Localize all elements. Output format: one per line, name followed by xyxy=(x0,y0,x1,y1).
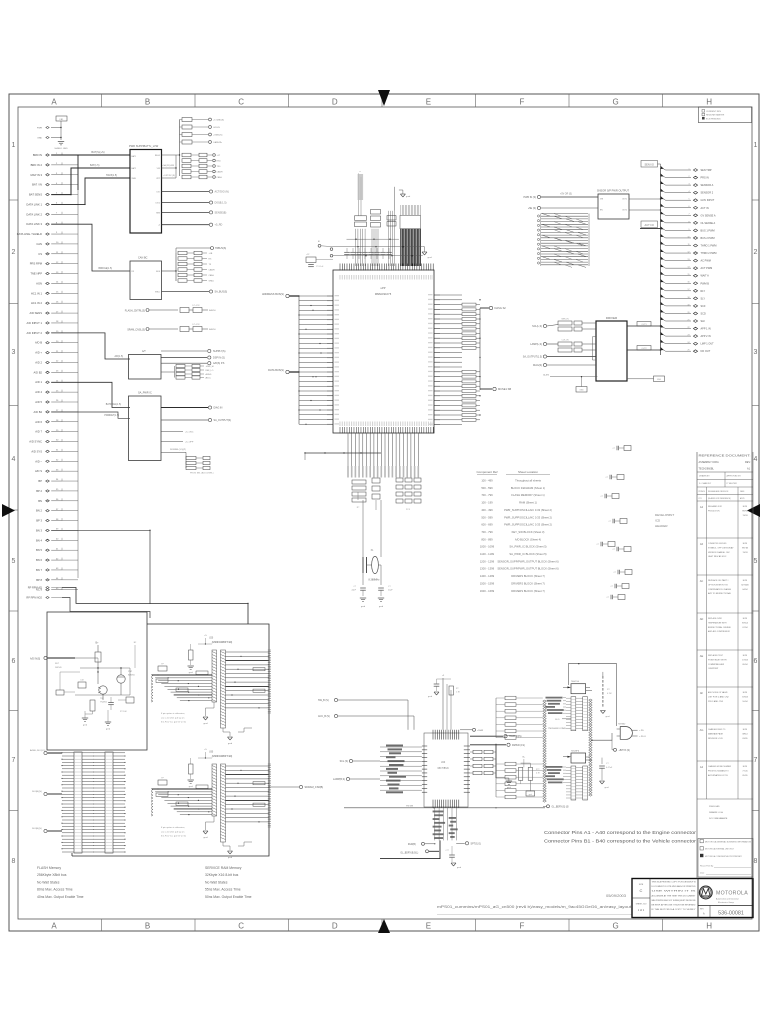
svg-text:1100 - 1199: 1100 - 1199 xyxy=(480,552,494,556)
drawn cad note xyxy=(709,805,728,820)
svg-text:1000 - 1099: 1000 - 1099 xyxy=(480,545,495,549)
svg-text:G: G xyxy=(612,98,618,107)
svg-text:TNE NPP: TNE NPP xyxy=(30,272,42,276)
svg-text:A/D 2: A/D 2 xyxy=(35,360,42,364)
capacitor C31 xyxy=(599,758,613,789)
svg-text:87654: 87654 xyxy=(742,623,749,625)
svg-text:BAT / IN: BAT / IN xyxy=(32,183,42,187)
svg-text:4.7M: 4.7M xyxy=(607,693,612,695)
svg-text:40ns Max. Output Enable Time: 40ns Max. Output Enable Time xyxy=(37,895,84,899)
revision row AG 7 xyxy=(697,728,753,761)
svg-text:A/D(1.5): A/D(1.5) xyxy=(114,355,123,358)
svg-text:SENSOR A: SENSOR A xyxy=(701,184,714,187)
svg-text:SEN I/O: SEN I/O xyxy=(644,163,654,167)
svg-text:ALANI: ALANI xyxy=(543,374,549,377)
svg-text:AG: AG xyxy=(700,728,704,732)
svg-text:this R to Vcc (pri 5V or G): this R to Vcc (pri 5V or G) xyxy=(161,721,186,724)
resistor network RN2 right of U1 xyxy=(162,153,223,179)
label scribbles 74HC1G xyxy=(546,697,567,714)
connector strips 74HC1G xyxy=(566,697,588,731)
terminal DIO B xyxy=(32,791,62,796)
svg-text:SRAM_CNSL(S): SRAM_CNSL(S) xyxy=(127,329,145,332)
svg-text:COMPENSATION. CHANGE: COMPENSATION. CHANGE xyxy=(708,588,732,591)
svg-text:DATA LINE / SHIELD: DATA LINE / SHIELD xyxy=(17,232,42,236)
terminal DIAG driver xyxy=(533,363,596,367)
svg-text:SCL (S): SCL (S) xyxy=(340,760,349,763)
terminal SA OUTPUT driver xyxy=(523,355,596,359)
svg-text:AVR TO BIDIRECTIONAL: AVR TO BIDIRECTIONAL xyxy=(708,592,732,595)
svg-text:9: 9 xyxy=(689,229,690,231)
svg-text:MOTOROLA GENERAL BUSINESS INFO: MOTOROLA GENERAL BUSINESS INFORMATION xyxy=(705,841,752,844)
svg-text:A/D B: A/D B xyxy=(35,341,42,345)
svg-text:ECN: ECN xyxy=(743,543,748,545)
svg-text:A/D 4: A/D 4 xyxy=(35,390,42,394)
IC U2 CAN transceiver xyxy=(130,257,162,300)
terminal SCL U8 xyxy=(340,759,380,763)
svg-text:3: 3 xyxy=(754,349,758,356)
connector pin hatch column right xyxy=(589,699,593,796)
svg-text:THIS IS A PRINTED COPY. FOR DE: THIS IS A PRINTED COPY. FOR DESIGN F B xyxy=(652,881,697,884)
wire data bus right fan xyxy=(434,295,481,425)
connector pin hatch column left xyxy=(543,700,547,802)
svg-text:BLOCK DIAGRAM (Sheet 1): BLOCK DIAGRAM (Sheet 1) xyxy=(511,486,545,490)
wire bottom pin hatch xyxy=(340,427,433,434)
svg-text:16: 16 xyxy=(688,282,690,284)
connector strips 74S/4Pb xyxy=(566,766,588,800)
svg-text:CURRENT REV: CURRENT REV xyxy=(706,111,722,113)
svg-text:11: 11 xyxy=(688,244,690,246)
title block disclaimer text xyxy=(652,881,698,912)
svg-text:DRIVE: DRIVE xyxy=(55,667,62,669)
IC U8 serial interface package xyxy=(422,730,470,808)
terminal RxD xyxy=(408,842,436,846)
svg-text:FLASH_CNTRL(S): FLASH_CNTRL(S) xyxy=(125,310,145,313)
svg-text:6: 6 xyxy=(754,658,758,665)
svg-text:BP: BP xyxy=(38,479,42,483)
svg-text:No Wait States: No Wait States xyxy=(205,880,228,884)
svg-text:ACT I/O: ACT I/O xyxy=(645,223,654,227)
svg-text:SCL(L,S): SCL(L,S) xyxy=(532,325,542,328)
svg-text:APP 1 IN: APP 1 IN xyxy=(701,328,711,331)
terminal ADBL DIO xyxy=(30,749,62,755)
svg-text:OUT1: OUT1 xyxy=(622,199,627,201)
svg-text:10: 10 xyxy=(688,236,690,238)
svg-text:Component Ref: Component Ref xyxy=(476,470,497,474)
svg-text:BN 6: BN 6 xyxy=(36,558,42,562)
connector J1 engine harness pins xyxy=(17,153,78,600)
svg-text:SA_PWR_IC BLOCK (Sheet 5): SA_PWR_IC BLOCK (Sheet 5) xyxy=(509,545,546,549)
svg-text:2: 2 xyxy=(689,176,690,178)
svg-text:32Kbyte X16 8-bit bus: 32Kbyte X16 8-bit bus xyxy=(205,873,239,877)
svg-text:GL_BDRY(S) (S/: GL_BDRY(S) (S/ xyxy=(552,806,570,808)
resistor R42 divider xyxy=(496,763,541,796)
svg-text:BP 3: BP 3 xyxy=(36,519,42,523)
svg-text:BAT(S)(+S): BAT(S)(+S) xyxy=(91,150,104,154)
border row numbers xyxy=(12,142,758,865)
bottom grounds U20 xyxy=(203,702,252,745)
svg-text:AD: AD xyxy=(700,617,704,621)
svg-text:E: E xyxy=(426,98,431,107)
svg-text:PNP: PNP xyxy=(128,671,133,673)
decoupling U30 xyxy=(158,749,212,788)
reference document header xyxy=(699,455,752,500)
capacitor C6 xyxy=(378,586,394,608)
svg-text:GD/LN: GD/LN xyxy=(213,127,220,129)
svg-text:LIST FOR D AND CN2: LIST FOR D AND CN2 xyxy=(708,695,730,698)
svg-text:V33: V33 xyxy=(157,168,160,170)
svg-text:CANH: CANH xyxy=(209,269,215,272)
gate U9 xyxy=(617,724,647,740)
svg-text:ICD: ICD xyxy=(655,519,661,523)
svg-text:A/DBL,DIO(1.5): A/DBL,DIO(1.5) xyxy=(30,749,46,752)
svg-text:E: E xyxy=(426,922,431,931)
svg-text:Automotive and Industrial: Automotive and Industrial xyxy=(716,898,739,901)
svg-text:BN 7: BN 7 xyxy=(36,568,42,572)
MCU U5 xyxy=(333,270,434,433)
svg-text:BN 5: BN 5 xyxy=(36,548,42,552)
svg-text:A/D B4: A/D B4 xyxy=(33,410,42,414)
svg-text:OUT2: OUT2 xyxy=(622,210,627,212)
revision row AE 5 xyxy=(697,654,753,687)
svg-text:C?: C? xyxy=(614,572,616,574)
svg-text:04/04: 04/04 xyxy=(742,589,748,591)
svg-text:D? 4.7K: D? 4.7K xyxy=(192,324,200,326)
svg-text:AGND: AGND xyxy=(206,373,212,376)
svg-text:ECN: ECN xyxy=(743,766,748,768)
svg-text:6: 6 xyxy=(12,658,16,665)
svg-text:05/09/2003: 05/09/2003 xyxy=(606,893,627,898)
title block outline xyxy=(632,879,753,918)
svg-text:A/D(S) P.S: A/D(S) P.S xyxy=(213,362,225,365)
svg-text:1: 1 xyxy=(12,142,16,149)
svg-text:+IGN1(S): +IGN1(S) xyxy=(213,135,223,137)
svg-text:GL_BDRY(B,S/L): GL_BDRY(B,S/L) xyxy=(400,853,418,855)
svg-text:+5SW: +5SW xyxy=(477,730,484,732)
svg-text:HEADER: HEADER xyxy=(655,524,668,528)
svg-text:SLY: SLY xyxy=(701,297,706,300)
svg-text:ECN: ECN xyxy=(743,580,748,582)
svg-text:7: 7 xyxy=(12,757,16,764)
logic buffer 74HC1G xyxy=(563,681,592,694)
svg-text:D: D xyxy=(332,922,338,931)
svg-text:8: 8 xyxy=(689,221,690,223)
svg-text:1200 - 1299: 1200 - 1299 xyxy=(480,559,495,563)
svg-text:BAW56: BAW56 xyxy=(128,674,136,677)
svg-text:1300 - 1399: 1300 - 1399 xyxy=(480,567,495,571)
svg-text:DIO(B,1.5): DIO(B,1.5) xyxy=(215,202,227,205)
svg-text:BAT2: BAT2 xyxy=(132,167,137,170)
svg-text:ECN: ECN xyxy=(743,506,748,508)
svg-text:PRINCE: PRINCE xyxy=(699,491,706,493)
svg-text:SA_PWR_IC BLOCK (Sheet 5): SA_PWR_IC BLOCK (Sheet 5) xyxy=(509,552,546,556)
svg-text:RxD(B): RxD(B) xyxy=(408,843,416,846)
svg-text:(BLANKS FOR REFERENCE): (BLANKS FOR REFERENCE) xyxy=(708,497,731,500)
svg-text:GND: GND xyxy=(579,390,584,392)
wire TN SW run xyxy=(344,806,545,809)
svg-text:Throughout all sheets: Throughout all sheets xyxy=(515,479,542,483)
wire bus taps to lower blocks xyxy=(51,224,249,624)
svg-text:5: 5 xyxy=(12,558,16,565)
terminal MCSE xyxy=(480,387,511,391)
svg-text:use a 10 ohm pull up on: use a 10 ohm pull up on xyxy=(161,831,185,833)
svg-text:THRO 1 PWM: THRO 1 PWM xyxy=(701,245,717,248)
svg-text:A4: A4 xyxy=(700,765,704,769)
svg-text:grnd: grnd xyxy=(606,716,610,718)
RC network RN3 xyxy=(162,247,228,294)
svg-text:REPLACE OIL PART #: REPLACE OIL PART # xyxy=(708,579,730,582)
svg-text:SEN: SEN xyxy=(156,212,161,214)
svg-text:BP 2: BP 2 xyxy=(36,489,42,493)
svg-text:HI/BUS(S): HI/BUS(S) xyxy=(215,247,226,250)
svg-text:RELEASE AND REVISION: RELEASE AND REVISION xyxy=(708,490,729,493)
svg-text:10/04: 10/04 xyxy=(742,701,748,703)
svg-text:BN 4: BN 4 xyxy=(36,538,42,542)
svg-text:KEY_SW BLOCK (Sheet 3): KEY_SW BLOCK (Sheet 3) xyxy=(512,530,545,534)
svg-text:500 - 599: 500 - 599 xyxy=(481,515,493,519)
svg-text:+5 CMD(S): +5 CMD(S) xyxy=(213,120,224,122)
terminal RMS D xyxy=(470,743,525,747)
svg-text:BE RESP. AFTER USE IT MUST BE: BE RESP. AFTER USE IT MUST BE REVIEWED xyxy=(652,904,697,907)
revision row A6 2 xyxy=(697,542,753,575)
svg-text:CAN5/2b: CAN5/2b xyxy=(213,141,223,144)
svg-text:09/04: 09/04 xyxy=(742,664,748,666)
svg-text:SERVICE RAM Memory: SERVICE RAM Memory xyxy=(205,866,242,870)
Motorola logo xyxy=(698,886,753,905)
svg-text:SCF: SCF xyxy=(701,305,706,308)
svg-text:CLK_IN: CLK_IN xyxy=(561,340,569,342)
svg-text:A/D B2: A/D B2 xyxy=(33,370,42,374)
svg-text:AE: AE xyxy=(700,654,704,658)
svg-text:A/D ~: A/D ~ xyxy=(35,459,42,463)
svg-text:WAIT A: WAIT A xyxy=(701,275,710,278)
svg-text:POINT/INLET WITH: POINT/INLET WITH xyxy=(708,659,727,661)
terminal SW D IN xyxy=(470,735,522,739)
svg-text:DIO: DIO xyxy=(157,192,161,194)
svg-text:DATA LINK 1: DATA LINK 1 xyxy=(26,202,42,206)
note sram memory xyxy=(205,866,252,899)
svg-text:uPP: uPP xyxy=(381,286,386,290)
svg-text:D? 4.7K: D? 4.7K xyxy=(192,305,200,307)
svg-text:PRS RPM: PRS RPM xyxy=(30,262,43,266)
svg-text:+.2S O: +.2S O xyxy=(639,736,646,738)
svg-text:R?: R? xyxy=(456,688,458,690)
svg-text:BRIDGE(1.5): BRIDGE(1.5) xyxy=(98,268,112,270)
svg-text:RMS/D (1S): RMS/D (1S) xyxy=(512,744,525,747)
svg-text:11/03: 11/03 xyxy=(742,552,748,554)
wire gate feed xyxy=(591,733,612,741)
net label ACT I/O xyxy=(640,221,658,228)
svg-text:A/D BLOCK (Sheet 4): A/D BLOCK (Sheet 4) xyxy=(515,537,541,541)
svg-text:PWR_SUPP/OSCILL/HC 0.33 (Sheet: PWR_SUPP/OSCILL/HC 0.33 (Sheet 2) xyxy=(504,508,552,512)
svg-text:+.2S: +.2S xyxy=(639,730,644,732)
wire battery feeds xyxy=(51,150,130,205)
IC U3 A/D interface xyxy=(129,350,162,379)
svg-text:6: 6 xyxy=(689,206,690,208)
svg-text:THRO 2 PWM: THRO 2 PWM xyxy=(701,252,717,255)
release classification checkboxes xyxy=(698,839,753,878)
note flash memory xyxy=(37,866,84,899)
ground top 2 xyxy=(422,247,433,259)
svg-text:600 - 699: 600 - 699 xyxy=(481,523,493,527)
svg-text:P. WELTER: P. WELTER xyxy=(727,483,738,485)
svg-text:PWR SUPP/BATTx_LVW: PWR SUPP/BATTx_LVW xyxy=(129,144,159,148)
terminal GL BDRY S xyxy=(543,805,569,809)
svg-text:SENSE(B): SENSE(B) xyxy=(215,211,227,214)
svg-text:C: C xyxy=(238,98,244,107)
U8 top decoupling xyxy=(428,675,461,730)
svg-text:REPLACED TEST: REPLACED TEST xyxy=(708,654,724,657)
svg-text:14: 14 xyxy=(688,267,690,269)
svg-text:BP 8: BP 8 xyxy=(36,578,42,582)
svg-text:DATA LINK 3: DATA LINK 3 xyxy=(26,222,42,226)
decoupling caps row xyxy=(344,248,392,259)
svg-text:22pF: 22pF xyxy=(351,590,356,592)
svg-text:A/D 7: A/D 7 xyxy=(35,430,42,434)
svg-text:F: F xyxy=(520,98,525,107)
bus hatch U30 xyxy=(268,764,271,827)
svg-text:PIN 2 AND CN3: PIN 2 AND CN3 xyxy=(708,700,724,703)
flash interface box outline xyxy=(47,612,147,750)
U8 bottom label scribbles xyxy=(433,808,458,840)
terminal SPT xyxy=(456,842,481,846)
svg-text:MAP IN 3: MAP IN 3 xyxy=(31,173,43,177)
svg-text:A/D 1: A/D 1 xyxy=(35,380,42,384)
svg-text:ALTERNATES LIST B: ALTERNATES LIST B xyxy=(708,774,728,777)
svg-text:ACT PWM: ACT PWM xyxy=(701,267,713,270)
svg-text:82754B: 82754B xyxy=(741,585,749,587)
svg-text:8.388MHz: 8.388MHz xyxy=(369,579,381,582)
svg-text:DATA LINK 2: DATA LINK 2 xyxy=(26,212,42,216)
memory module U30 package xyxy=(209,752,232,843)
svg-text:FROM GC74566AN3 TO: FROM GC74566AN3 TO xyxy=(708,769,729,772)
revision row A4 8 xyxy=(697,765,753,799)
resistor network RN4 xyxy=(161,364,214,379)
label ICD header xyxy=(655,513,674,528)
svg-text:DRIVER: DRIVER xyxy=(606,316,618,320)
svg-text:CANH: CANH xyxy=(217,171,223,174)
svg-text:DOCUMENT IS UTILIZED AND/OR PR: DOCUMENT IS UTILIZED AND/OR PRINTED xyxy=(652,885,697,888)
svg-text:DIO2: DIO2 xyxy=(156,203,160,205)
svg-text:WB-3: WB-3 xyxy=(742,734,748,736)
svg-text:SER_IN: SER_IN xyxy=(561,319,569,321)
ground shield xyxy=(54,142,68,151)
capacitor C8 with ground xyxy=(446,846,461,869)
svg-text:3: 3 xyxy=(12,349,16,356)
svg-text:LAMP(L,S): LAMP(L,S) xyxy=(530,343,542,346)
svg-text:ACCURATE AT THE TIME THIS DOCU: ACCURATE AT THE TIME THIS DOCUMENT xyxy=(652,894,697,897)
revision row AC 3 xyxy=(697,579,753,613)
svg-text:AGN: AGN xyxy=(36,281,42,285)
logic buffer 74S/4Pb xyxy=(563,751,592,764)
svg-text:07/04: 07/04 xyxy=(742,627,748,629)
svg-text:BN: BN xyxy=(38,499,42,503)
svg-text:A/D S: A/D S xyxy=(35,469,42,473)
svg-text:H: H xyxy=(706,98,712,107)
memory module U20 package xyxy=(209,638,232,729)
terminal LAMP driver xyxy=(530,342,558,346)
svg-text:7: 7 xyxy=(754,757,758,764)
svg-text:TEMPERATURE WITH: TEMPERATURE WITH xyxy=(708,621,727,624)
svg-text:256Kbyte X8bit bus: 256Kbyte X8bit bus xyxy=(37,873,67,877)
svg-text:AF: AF xyxy=(700,691,704,695)
crystal X1 xyxy=(363,500,381,585)
svg-text:A4: A4 xyxy=(700,505,704,509)
svg-text:DRAWN LO A: DRAWN LO A xyxy=(709,811,723,814)
svg-text:SHLD: SHLD xyxy=(155,292,161,294)
svg-text:CAN: CAN xyxy=(36,242,42,246)
svg-text:Electronics Group: Electronics Group xyxy=(718,901,735,904)
address fan U30 xyxy=(151,785,212,816)
svg-text:21: 21 xyxy=(688,319,690,321)
diode network D2 xyxy=(127,324,216,332)
svg-text:use a 10 ohm pull up on: use a 10 ohm pull up on xyxy=(161,717,185,719)
svg-text:+B/TX3 (S): +B/TX3 (S) xyxy=(619,750,631,752)
svg-text:SA_OUTPUT(S): SA_OUTPUT(S) xyxy=(214,419,232,422)
svg-text:C: C xyxy=(640,888,643,893)
svg-text:ECN: ECN xyxy=(743,692,748,694)
svg-text:800 - 899: 800 - 899 xyxy=(481,537,493,541)
svg-text:REF_LO: REF_LO xyxy=(206,370,214,372)
svg-text:2: 2 xyxy=(12,249,16,256)
border column letters xyxy=(51,98,712,931)
svg-text:CANL: CANL xyxy=(209,274,215,277)
svg-text:GND: GND xyxy=(37,138,42,140)
connector J0 shield pins xyxy=(37,116,67,140)
svg-text:REFERENCE DOCUMENT:: REFERENCE DOCUMENT: xyxy=(699,455,751,458)
svg-text:IF THE MOTOROLA COPY TO VERIFY: IF THE MOTOROLA COPY TO VERIFY xyxy=(652,908,697,911)
svg-text:SPT(S,G): SPT(S,G) xyxy=(471,842,482,845)
svg-text:BAT1: BAT1 xyxy=(132,155,137,158)
svg-text:98765: 98765 xyxy=(742,511,749,513)
svg-text:74TB62: 74TB62 xyxy=(618,724,626,726)
svg-text:ACT/DIO (N): ACT/DIO (N) xyxy=(215,191,229,194)
svg-text:C?: C? xyxy=(613,448,615,450)
svg-text:WAS PRINTED AND NOT SUBSEQUENT: WAS PRINTED AND NOT SUBSEQUENT REVISIONS xyxy=(652,899,697,902)
terminal SW B xyxy=(318,698,408,729)
svg-text:C? 0.1uF: C? 0.1uF xyxy=(316,266,324,268)
terminal DASG xyxy=(480,306,506,310)
svg-text:+5_OSC: +5_OSC xyxy=(185,432,194,434)
svg-text:DIAG IN: DIAG IN xyxy=(214,407,223,410)
svg-text:gnd: gnd xyxy=(529,794,532,796)
svg-text:PWR_SUPP/OSCILL/HC 0.33 (Sheet: PWR_SUPP/OSCILL/HC 0.33 (Sheet 2) xyxy=(504,515,552,519)
revision table frame xyxy=(697,452,753,879)
svg-text:DRIVERS BLOCK (Sheet 7): DRIVERS BLOCK (Sheet 7) xyxy=(511,589,545,593)
svg-text:PWR IN (S): PWR IN (S) xyxy=(524,196,537,199)
resistor network feed J4 xyxy=(496,762,543,799)
svg-text:G: G xyxy=(612,922,618,931)
terminal DIO B 2 xyxy=(32,828,62,833)
svg-text:ECN: ECN xyxy=(743,729,748,731)
svg-text:74S/4Pb: 74S/4Pb xyxy=(571,751,580,753)
component location table xyxy=(476,470,558,593)
svg-text:PWR_SUPP/OSCILL/HC 0.33 (Sheet: PWR_SUPP/OSCILL/HC 0.33 (Sheet 2) xyxy=(504,523,552,527)
svg-text:4: 4 xyxy=(12,456,16,463)
svg-text:C?: C? xyxy=(597,544,599,546)
svg-text:A/D 6: A/D 6 xyxy=(35,420,42,424)
wire top riser group 3 xyxy=(387,187,396,266)
svg-text:12: 12 xyxy=(688,251,690,253)
svg-text:BIDIRECTIONAL OVERHD: BIDIRECTIONAL OVERHD xyxy=(708,626,731,629)
terminal SDRAM CS xyxy=(269,785,323,789)
svg-text:RP RPM AD: RP RPM AD xyxy=(28,586,42,590)
revision stamp box xyxy=(698,107,751,123)
IC U6 sensor supply xyxy=(597,189,630,220)
revision row AD 4 xyxy=(697,617,753,650)
svg-text:DWG/CAD: DWG/CAD xyxy=(709,805,720,808)
decoupling U20 xyxy=(158,635,212,674)
svg-text:0.47uF: 0.47uF xyxy=(606,767,613,769)
